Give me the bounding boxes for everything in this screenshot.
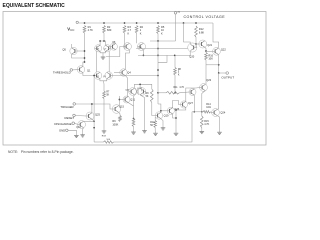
svg-text:5K: 5K [106, 95, 109, 97]
node Q11 emitter [133, 118, 135, 120]
R15 gnd wire [201, 128, 203, 130]
output stub wire [219, 72, 226, 74]
node Q6 Q7 bridge [103, 40, 105, 42]
THRESHOLD pin terminal [70, 69, 73, 72]
Q1 emitter wire [83, 73, 94, 76]
R8 bottom wire [174, 75, 176, 93]
Q17 top stub wire [139, 84, 141, 88]
Q1 collector wire [83, 62, 85, 66]
svg-text:10Ω: 10Ω [206, 106, 211, 109]
svg-text:Q24: Q24 [220, 110, 225, 114]
node Q1 collector [84, 61, 86, 63]
svg-text:NOTE: Pin numbers refer to 8: NOTE: Pin numbers refer to 8-Pin package… [8, 150, 74, 154]
transistor Q19 [155, 112, 169, 119]
ground below R15 [200, 129, 205, 133]
control voltage node wire [150, 40, 176, 42]
resistor R5 [157, 26, 160, 34]
transistor Q21 [199, 40, 213, 48]
svg-text:Q15: Q15 [119, 105, 124, 109]
svg-text:GND: GND [59, 128, 65, 132]
ground below Q14 [80, 133, 85, 137]
Q26 emitter wire [173, 114, 176, 118]
node Q5 emitter [84, 57, 86, 59]
Q28 collector wire [186, 88, 196, 101]
discharge spine wire [93, 76, 95, 143]
rail junction at x=124.5 [124, 22, 126, 24]
reference spine wire [157, 41, 159, 104]
transistor Q3 [105, 72, 113, 80]
Q6 vertical to Q2 wire [95, 52, 97, 73]
R1 lower wire [84, 33, 86, 62]
node R16 branch [218, 64, 220, 66]
svg-text:K: K [140, 31, 142, 35]
svg-text:Q26: Q26 [174, 107, 179, 111]
resistor R9 [150, 89, 153, 103]
R4 value label [140, 25, 144, 35]
R3 value label [128, 25, 132, 35]
Q15 emitter wire [119, 112, 121, 115]
Q23 emitter wire [202, 91, 205, 112]
svg-text:4.7K: 4.7K [179, 87, 184, 89]
R9 value label [146, 93, 150, 98]
svg-text:K: K [178, 74, 180, 76]
node Q21 emitter [205, 50, 207, 52]
DISCHARGE pin terminal [72, 122, 75, 125]
rail junction at x=196 [195, 22, 197, 24]
R12 lower wire / Q20 base [195, 37, 197, 48]
svg-text:RESET: RESET [65, 116, 75, 120]
node R12-Q21 junction [195, 43, 197, 45]
svg-text:Q7: Q7 [104, 48, 107, 50]
transistor Q6 [95, 45, 102, 52]
svg-text:Q19: Q19 [164, 113, 169, 117]
ground below R7 [102, 129, 107, 133]
node R15 top [201, 111, 203, 113]
resistor R15 [200, 116, 203, 128]
threshold wire [73, 69, 78, 71]
node Q9 emitter [143, 55, 145, 57]
Q5 emitter wire [72, 54, 85, 58]
svg-text:Q11: Q11 [130, 97, 135, 101]
transistor Q23 [200, 78, 212, 91]
resistor R1 [83, 26, 86, 34]
svg-text:EQUIVALENT SCHEMATIC: EQUIVALENT SCHEMATIC [3, 3, 66, 9]
emitter bus wire [138, 54, 190, 56]
Q4 base wire [114, 72, 120, 74]
transistor Q14 [76, 121, 85, 129]
node flipflop bridge2 [139, 83, 141, 85]
svg-text:6.8K: 6.8K [199, 30, 205, 34]
svg-text:Q14: Q14 [76, 127, 81, 129]
node emitter bus R8 [174, 55, 176, 57]
rail junction at x=136.6 [136, 22, 138, 24]
svg-text:R10: R10 [150, 122, 155, 124]
R16 value label [208, 53, 213, 60]
svg-text:(5): (5) [178, 11, 181, 13]
Q12 base wire [106, 47, 125, 57]
Q11 collector wire [127, 95, 130, 98]
node CV divider [157, 40, 159, 42]
R15 stem wire [201, 112, 203, 116]
node Q28 emitter [175, 109, 177, 111]
output vertical wire [218, 73, 220, 109]
R2 value label [107, 25, 112, 32]
node Q6 bridge [99, 40, 101, 42]
svg-text:5K: 5K [150, 125, 153, 127]
svg-text:4.7K: 4.7K [88, 28, 94, 32]
flipflop top bridge wire [134, 84, 151, 89]
node comparator out [157, 75, 159, 77]
svg-text:Q2: Q2 [96, 76, 100, 78]
svg-text:100K: 100K [112, 122, 118, 126]
node spine y92.8 [157, 92, 159, 94]
Q11 emitter wire [128, 103, 133, 106]
resistor R11 [104, 141, 114, 144]
flipflop cross wire 2 [135, 88, 138, 95]
bottom wire to R11 [94, 141, 103, 143]
svg-text:K: K [161, 31, 163, 35]
resistor R17 [166, 92, 179, 95]
svg-text:OUTPUT: OUTPUT [221, 75, 234, 79]
TRIGGER pin terminal [73, 103, 76, 106]
node spine Q1 emitter [93, 75, 95, 77]
Q20 collector wire [184, 23, 191, 44]
transistor Q20 [188, 43, 197, 59]
Q19 collector wire [158, 104, 161, 112]
R14 value label [206, 103, 211, 109]
node Q11 base [119, 99, 121, 101]
svg-text:Q3: Q3 [103, 76, 107, 78]
ground at GND pin [74, 133, 79, 137]
transistor Q2 [94, 72, 102, 80]
resistor R3 [123, 26, 126, 34]
Q19 emitter wire [161, 119, 163, 126]
GND pin terminal [66, 129, 69, 132]
svg-text:TRIGGER: TRIGGER [60, 105, 73, 109]
transistor Q11 [123, 96, 136, 103]
Q21 emitter wire [205, 47, 206, 52]
Q16 emitter wire [133, 95, 136, 119]
R9 bottom wire [152, 103, 156, 116]
resistor R12 [195, 26, 198, 37]
Q22 emitter to output wire [217, 55, 219, 73]
node Q27 emitter [193, 111, 195, 113]
svg-text:Q23: Q23 [206, 78, 211, 82]
rail junction at x=158 [157, 22, 159, 24]
trigger wire [75, 104, 112, 109]
Q6-Q7 emitter bridge wire [100, 52, 105, 53]
transistor Q17 [138, 88, 146, 96]
resistor R13 [132, 119, 135, 127]
Q5 collector wire [71, 44, 73, 48]
R15 value label [204, 120, 209, 126]
transistor Q16 [129, 88, 137, 96]
Q26 base wire [161, 110, 167, 112]
R6 value label [112, 119, 118, 126]
svg-text:Q6: Q6 [97, 48, 100, 50]
spine jog wire [158, 55, 167, 62]
svg-text:CONTROL VOLTAGE: CONTROL VOLTAGE [184, 15, 226, 19]
resistor R10 [154, 121, 157, 128]
ground below Q17 [142, 129, 147, 133]
node R8 bottom [174, 92, 176, 94]
R1 value label [88, 25, 94, 32]
transistor Q27 [189, 89, 196, 96]
node spine y48.5 [157, 48, 159, 50]
transistor Q26 [167, 107, 180, 114]
reset wire [75, 115, 86, 118]
R14 wire [192, 111, 203, 113]
svg-text:Q4: Q4 [127, 71, 131, 74]
gnd pin wire [68, 130, 76, 133]
R10 top wire [154, 117, 156, 121]
Q4 emitter wire [125, 76, 127, 96]
svg-text:Q5: Q5 [62, 47, 66, 51]
Q17 top wire [141, 87, 143, 91]
Q28 emitter wire [176, 108, 186, 131]
transistor Q9 [138, 43, 146, 51]
Q20 emitter wire [189, 51, 191, 55]
Q4 collector wire [125, 50, 129, 69]
Q26 collector wire [173, 101, 181, 108]
comparator tail wire [102, 81, 105, 91]
ground below R10 [153, 131, 158, 135]
R8 value label [178, 69, 182, 76]
resistor R16 [205, 53, 208, 61]
svg-text:10K: 10K [208, 57, 213, 61]
Q9 emitter wire [142, 50, 144, 56]
flipflop cross wire [135, 88, 138, 95]
svg-text:DISCHARGE: DISCHARGE [54, 122, 71, 126]
node Q26 base [160, 110, 162, 112]
VCC top rail wire [78, 22, 213, 24]
node Q26 emitter [175, 117, 177, 119]
svg-text:R11: R11 [174, 87, 179, 89]
node Q14 collector [93, 120, 95, 122]
schematic border frame [3, 12, 266, 146]
resistor R2 [103, 26, 106, 34]
svg-text:830: 830 [107, 28, 112, 32]
svg-text:4.7K: 4.7K [204, 123, 209, 126]
svg-text:Q25: Q25 [95, 113, 100, 117]
svg-text:100: 100 [106, 139, 110, 141]
OUTPUT pin terminal [226, 72, 229, 75]
Q8 base wire [109, 46, 111, 48]
R12 value label [199, 27, 205, 34]
svg-text:R7: R7 [106, 92, 110, 94]
svg-text:THRESHOLD: THRESHOLD [53, 71, 71, 75]
Q27 base wire [179, 91, 189, 94]
R7 value label [106, 92, 110, 97]
R2 lower wire [103, 33, 105, 41]
transistor Q7 [104, 45, 111, 52]
Q14 emitter wire [82, 128, 85, 133]
svg-text:5K: 5K [146, 96, 149, 98]
R4 lower wire [136, 33, 138, 43]
ground below Q26 Q28 [174, 131, 179, 135]
Q6-Q7 top bridge wire [100, 41, 105, 45]
ground below Q24 [217, 130, 222, 134]
Q5 base wire [78, 50, 85, 52]
R7 ground wire [103, 99, 105, 129]
transistor Q4 [120, 69, 132, 76]
R16 bottom wire [205, 60, 207, 85]
node spine y70 [157, 69, 159, 71]
R5 value label [161, 25, 165, 35]
ground stem Q6 Q7 [102, 53, 104, 55]
Q21 base wire [196, 43, 199, 45]
svg-text:VCC: VCC [67, 26, 75, 31]
R5 lower wire [157, 34, 159, 42]
stage link wire [136, 48, 188, 50]
Q23 base wire [196, 87, 200, 90]
Q25 collector wire [91, 104, 93, 113]
svg-text:Q27: Q27 [188, 101, 193, 105]
Q7 vertical to Q3 wire [108, 52, 110, 73]
node spine y55 [157, 55, 159, 57]
ground below R13 [131, 130, 136, 134]
svg-text:Q1: Q1 [87, 69, 91, 72]
R14 to Q24 base wire [211, 111, 212, 114]
bottom wire right [114, 112, 193, 142]
Q15 collector wire [118, 96, 121, 106]
Q22 base wire [206, 50, 213, 52]
svg-text:R18: R18 [102, 136, 107, 138]
comparator output wire [113, 75, 159, 77]
resistor R4 [135, 26, 138, 34]
RESET pin terminal [73, 114, 76, 117]
svg-text:R9: R9 [146, 93, 150, 95]
R10 bottom wire [154, 128, 156, 132]
R16 branch wire [206, 64, 219, 66]
node spine Q25 [93, 127, 95, 129]
control voltage stub wire [175, 14, 177, 41]
resistor R6 [119, 116, 122, 122]
rail junction at x=104 [103, 22, 105, 24]
rail junction at x=84.5 [84, 22, 86, 24]
resistor R8 [174, 68, 177, 76]
Q25 emitter wire [92, 119, 94, 121]
transistor Q5 [62, 47, 77, 54]
node Q25 collector [91, 103, 93, 105]
transistor Q1 [77, 66, 91, 74]
R10 value label [150, 122, 155, 127]
svg-text:Q22: Q22 [221, 48, 226, 52]
rail drop to Q22 wire [213, 23, 219, 48]
Q14 collector wire [84, 120, 95, 122]
Q24 collector wire [217, 108, 218, 110]
VCC pin terminal [76, 21, 78, 23]
CONTROL VOLTAGE pin terminal [174, 12, 177, 15]
R17 left wire [158, 92, 166, 94]
node Q5 base [84, 50, 86, 52]
transistor Q25 [86, 112, 100, 120]
R8 top wire [174, 55, 176, 67]
resistor R14 [203, 111, 211, 114]
Q24 emitter wire [217, 116, 219, 130]
svg-text:K: K [128, 31, 130, 35]
svg-text:Q21: Q21 [207, 43, 212, 47]
transistor Q24 [212, 109, 226, 117]
ground below Q6 Q7 [101, 55, 106, 59]
transistor Q12 [124, 43, 132, 51]
R3 lower wire [124, 33, 126, 49]
R13 bottom wire [133, 127, 135, 130]
transistor Q28 [180, 101, 193, 108]
ground below Q19 [161, 126, 166, 130]
rail junction at x=183.5 [183, 22, 185, 24]
Q2-Q3 base bridge wire [100, 79, 107, 81]
discharge wire [74, 123, 77, 124]
Q17 emitter wire [140, 95, 144, 129]
resistor R7 [103, 91, 106, 99]
Q11 base wire [119, 99, 123, 101]
transistor Q22 [213, 47, 227, 55]
transistor Q15 [112, 105, 124, 114]
transistor Q8 [110, 42, 117, 50]
Q27 emitter wire [193, 95, 195, 112]
node OUTPUT [218, 72, 220, 74]
